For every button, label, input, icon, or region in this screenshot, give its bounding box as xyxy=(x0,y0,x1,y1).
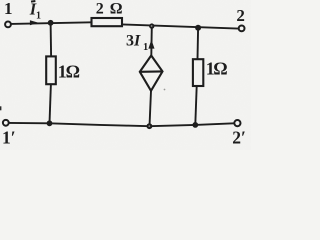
wire right branch upper xyxy=(197,28,200,59)
wire left branch upper xyxy=(50,23,53,57)
label I1 (phasor dot) xyxy=(29,0,41,22)
paper grain overlay (decorative) xyxy=(0,0,251,150)
junction bottom-right xyxy=(192,122,198,128)
speck near diamond xyxy=(164,89,166,91)
paper background xyxy=(0,0,251,150)
junction top-left xyxy=(48,20,54,26)
dependent source arrow 3I1 xyxy=(148,40,154,49)
wire middle branch lower xyxy=(150,91,152,126)
terminal node 1 xyxy=(5,22,11,28)
current arrow I1 xyxy=(30,20,39,25)
speck left edge xyxy=(0,106,1,110)
terminal node 2prime xyxy=(234,120,240,126)
wire top rail right (resistor 2ohm to terminal 2) xyxy=(122,24,238,28)
wire bottom rail xyxy=(9,123,234,126)
junction top-right xyxy=(195,25,201,31)
wire left branch lower xyxy=(50,84,51,123)
junction bottom-left xyxy=(47,120,53,126)
junction bottom-middle xyxy=(147,123,153,129)
junction top-middle xyxy=(149,23,154,28)
terminal node 2 xyxy=(239,26,245,32)
dependent current source (diamond) xyxy=(140,56,163,91)
wire middle branch upper xyxy=(150,26,153,56)
resistor 1 ohm right xyxy=(193,59,203,86)
wire right branch lower xyxy=(195,86,196,125)
terminal node 1prime xyxy=(3,120,9,126)
resistor 2 ohm xyxy=(92,18,123,26)
wire top rail left (terminal 1 to resistor 2ohm) xyxy=(11,22,91,24)
resistor 1 ohm left xyxy=(46,56,56,84)
label 3I1 xyxy=(126,32,148,53)
